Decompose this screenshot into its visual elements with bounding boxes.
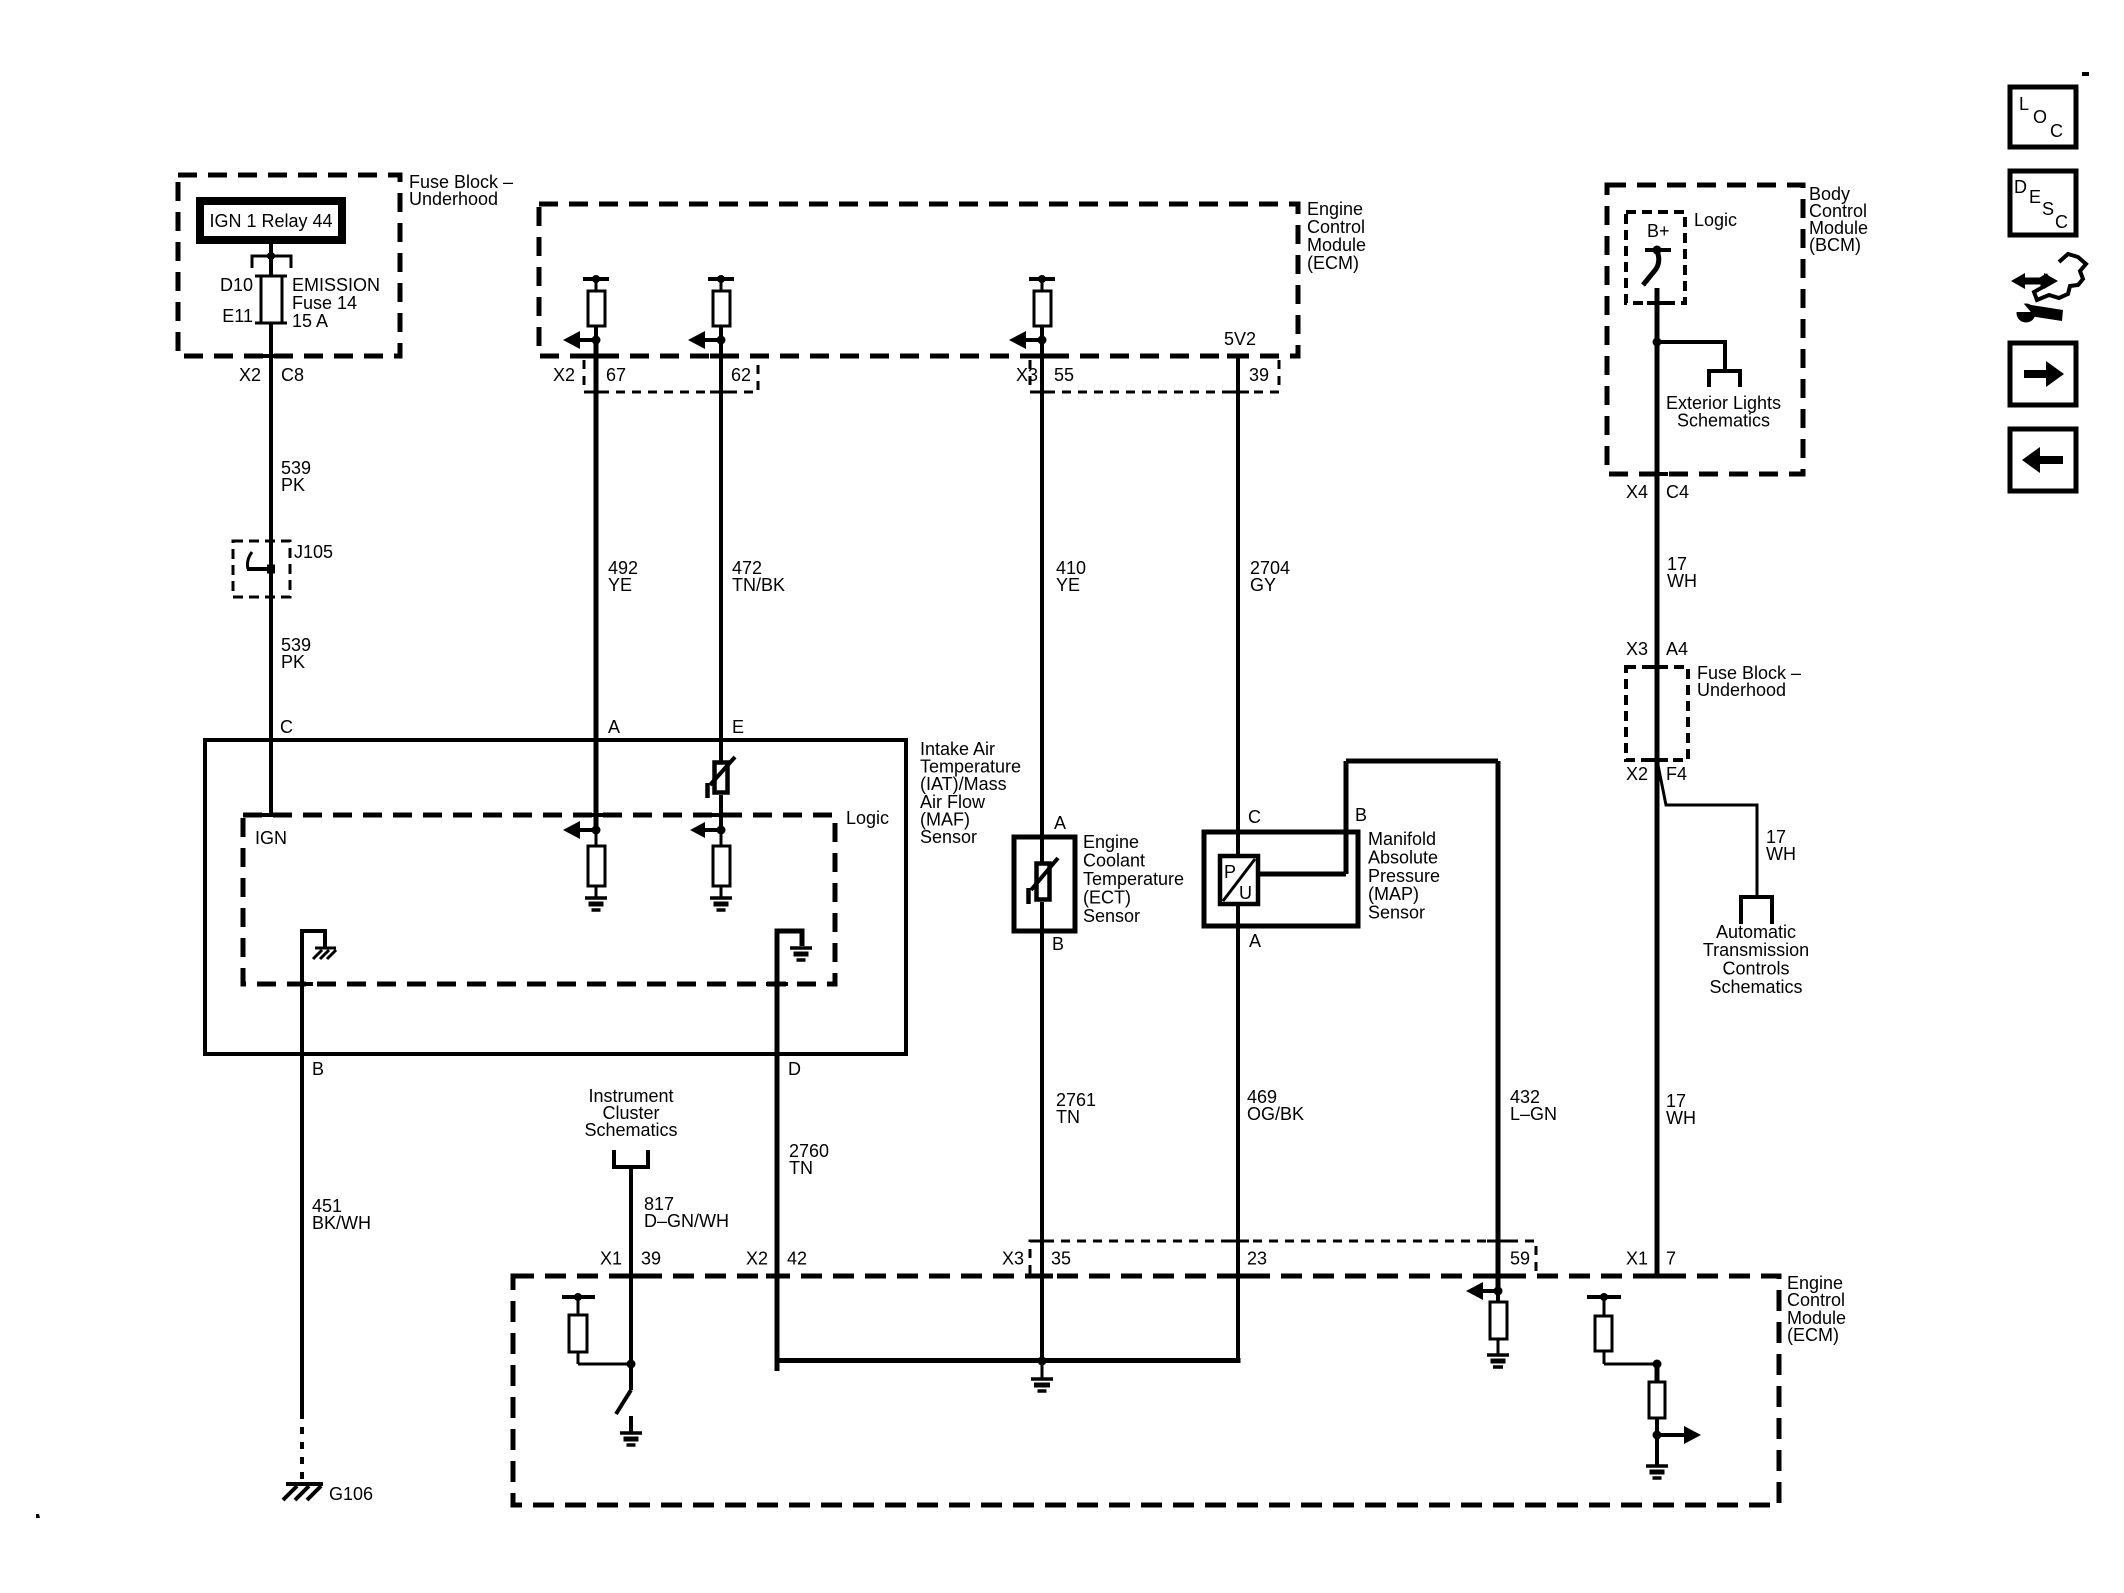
svg-text:IGN 1 Relay 44: IGN 1 Relay 44 — [209, 211, 332, 231]
svg-text:Sensor: Sensor — [1368, 903, 1425, 923]
tick marks at ECM edge crossings — [585, 354, 1249, 359]
svg-text:PK: PK — [281, 652, 305, 672]
wire 410 YE pin 55 to ECT A — [1040, 340, 1044, 862]
engine control module (bottom) dashed enclosure — [513, 1276, 1779, 1505]
wire 2704 GY pin 39 to MAP C — [1236, 357, 1240, 856]
connector box X2 (pins 67 62) fine dashed — [584, 356, 758, 392]
svg-text:59: 59 — [1510, 1249, 1530, 1269]
wire label 451 BK/WH — [312, 1196, 371, 1233]
icon wrench — [2008, 296, 2063, 323]
svg-text:D–GN/WH: D–GN/WH — [644, 1211, 729, 1231]
ground below switch — [620, 1416, 642, 1445]
wire 472 TN/BK pin 62 to MAF E — [719, 340, 723, 763]
svg-text:Temperature: Temperature — [1083, 869, 1184, 889]
off-page bracket to automatic transmission — [1741, 897, 1772, 924]
svg-text:D: D — [2014, 177, 2027, 197]
connector pins X2 / C8 — [239, 365, 304, 385]
pull-up resistor at E inside logic — [713, 830, 730, 898]
ground at E resistor — [710, 898, 732, 910]
switch blade from B+ — [1643, 251, 1659, 285]
ground at pin 59 resistor — [1487, 1355, 1509, 1367]
svg-text:Manifold: Manifold — [1368, 829, 1436, 849]
wire MAP B riser — [1344, 761, 1349, 874]
svg-text:E: E — [732, 717, 744, 737]
svg-text:Schematics: Schematics — [1677, 411, 1770, 431]
off-page bracket to exterior lights — [1709, 371, 1740, 387]
svg-text:TN/BK: TN/BK — [732, 575, 785, 595]
relay K: IGN 1 Relay 44 — [196, 197, 346, 244]
svg-text:IGN: IGN — [255, 828, 287, 848]
svg-text:A: A — [1054, 813, 1066, 833]
svg-text:C8: C8 — [281, 365, 304, 385]
ticks at right fuse box crossings — [1646, 667, 1668, 760]
svg-text:Schematics: Schematics — [1709, 977, 1802, 997]
wire 492 YE pin 67 to MAF A — [594, 340, 599, 830]
MAP sensor enclosure — [1204, 832, 1358, 926]
body control module dashed enclosure — [1607, 185, 1803, 474]
svg-text:7: 7 — [1666, 1249, 1676, 1269]
junction dot at relay output — [267, 252, 275, 260]
svg-text:Control: Control — [1787, 1290, 1845, 1310]
svg-text:WH: WH — [1666, 1108, 1696, 1128]
svg-text:67: 67 — [606, 365, 626, 385]
svg-text:(ECM): (ECM) — [1307, 253, 1359, 273]
pull-up resistor at pin 7 — [1587, 1293, 1657, 1364]
svg-text:X2: X2 — [746, 1249, 768, 1269]
chassis ground (IGN return) — [313, 948, 336, 959]
wire label 17 WH (lower) — [1666, 1091, 1696, 1128]
svg-text:Coolant: Coolant — [1083, 851, 1145, 871]
svg-text:O: O — [2033, 107, 2047, 127]
wire 817 D-GN/WH down to pin X1 39 — [629, 1167, 633, 1364]
svg-text:Automatic: Automatic — [1716, 922, 1796, 942]
stray mark bottom left — [36, 1514, 40, 1518]
ground at A resistor — [585, 898, 607, 910]
ECM (bottom) label — [1787, 1273, 1846, 1345]
svg-text:C: C — [1248, 807, 1261, 827]
logic block dashed box inside MAF — [243, 815, 835, 984]
svg-text:D: D — [788, 1059, 801, 1079]
wire 2761 TN ECT B to ECM X3 35 — [1040, 902, 1044, 1361]
automatic transmission controls schematics label — [1703, 922, 1809, 997]
exterior lights schematics label — [1666, 393, 1781, 431]
svg-text:Underhood: Underhood — [1697, 680, 1786, 700]
wire 539 PK from fuse to IAT sensor pin C — [269, 323, 273, 740]
IAT/MAF sensor label — [920, 739, 1021, 847]
svg-text:(MAP): (MAP) — [1368, 884, 1419, 904]
svg-text:C: C — [2055, 212, 2068, 232]
svg-text:62: 62 — [731, 365, 751, 385]
ECT sensor enclosure — [1014, 837, 1075, 931]
svg-text:TN: TN — [1056, 1107, 1080, 1127]
pin labels X4 C4 — [1626, 482, 1689, 502]
svg-text:GY: GY — [1250, 575, 1276, 595]
svg-text:WH: WH — [1766, 844, 1796, 864]
sense resistor at pin 7 — [1649, 1364, 1665, 1465]
off-page bracket from instrument cluster — [614, 1150, 648, 1167]
tick marks at logic box crossings — [260, 815, 788, 984]
wire label 492 YE — [608, 558, 638, 595]
svg-text:Logic: Logic — [846, 808, 889, 828]
wire label 469 OG/BK — [1247, 1087, 1304, 1124]
pin labels X3 55 39 — [1016, 365, 1269, 385]
tick marks at connector box bottom crossings — [585, 391, 1249, 394]
junction dot at B+ — [1653, 246, 1662, 255]
svg-text:X1: X1 — [1626, 1249, 1648, 1269]
ECT sensor label — [1083, 832, 1184, 926]
svg-text:Module: Module — [1307, 235, 1366, 255]
svg-text:OG/BK: OG/BK — [1247, 1104, 1304, 1124]
svg-text:X3: X3 — [1002, 1249, 1024, 1269]
tick at fuse block edge crossing — [260, 354, 282, 358]
svg-text:X2: X2 — [239, 365, 261, 385]
pin labels X2 42 — [746, 1249, 807, 1269]
svg-text:(ECM): (ECM) — [1787, 1325, 1839, 1345]
svg-text:F4: F4 — [1666, 764, 1687, 784]
svg-text:EMISSION: EMISSION — [292, 275, 380, 295]
svg-text:B: B — [1052, 934, 1064, 954]
svg-text:L: L — [2019, 94, 2029, 114]
wire label 472 TN/BK — [732, 558, 785, 595]
svg-text:23: 23 — [1247, 1249, 1267, 1269]
svg-text:L–GN: L–GN — [1510, 1104, 1557, 1124]
wire 432 L-GN down to ECM pin 59 — [1496, 761, 1501, 1289]
svg-text:Logic: Logic — [1694, 210, 1737, 230]
wire 451 BK/WH from pin B — [300, 1054, 304, 1412]
svg-text:Sensor: Sensor — [920, 827, 977, 847]
thermistor RT inside ECT — [1029, 858, 1059, 904]
connector box X3 (pins 35 23 59) fine dashed — [1030, 1241, 1536, 1274]
icon squiggle route with double arrow — [2011, 254, 2086, 300]
logic junction and arrow at E — [690, 822, 726, 838]
splice J105 symbol — [247, 552, 275, 574]
svg-text:Controls: Controls — [1722, 959, 1789, 979]
earth ground (signal return D) — [790, 948, 812, 960]
pin labels X3 A4 — [1626, 639, 1688, 659]
logic junction and arrow at A — [563, 821, 601, 839]
wire pin D up to earth ground — [777, 931, 802, 1054]
ground G106 chassis symbol — [283, 1484, 323, 1500]
icon forward arrow box — [2010, 343, 2076, 405]
ground bus wire from pin 42 — [775, 1276, 780, 1361]
splice J105 dashed box — [233, 541, 290, 597]
wire pin C into logic — [269, 740, 273, 817]
tick at fine box crossing pin 35 wire — [1032, 1240, 1054, 1243]
svg-text:Absolute: Absolute — [1368, 847, 1438, 867]
svg-text:Underhood: Underhood — [409, 189, 498, 209]
pull-up resistor at A inside logic — [588, 830, 605, 898]
svg-text:35: 35 — [1051, 1249, 1071, 1269]
branch wire to automatic transmission controls — [1658, 765, 1757, 897]
signal arrow at pin 62 — [688, 331, 726, 349]
svg-text:WH: WH — [1667, 571, 1697, 591]
wire 17 WH main vertical — [1655, 288, 1660, 1276]
svg-text:B+: B+ — [1647, 221, 1670, 241]
BCM logic dashed box — [1626, 212, 1685, 303]
icon back arrow box — [2010, 429, 2076, 491]
svg-text:YE: YE — [1056, 575, 1080, 595]
fuse block underhood (right) dashed box — [1626, 667, 1688, 760]
driver resistor R55 inside ECM — [1029, 275, 1055, 340]
thermistor RT on pin E wire — [708, 757, 736, 798]
svg-text:C4: C4 — [1666, 482, 1689, 502]
junction dot at pin 35 ground — [1038, 1357, 1047, 1366]
fuse block underhood (right) label — [1697, 663, 1801, 700]
junction dot at pin 7 net — [1653, 1360, 1662, 1369]
ground bus horizontal run — [775, 1358, 1241, 1363]
svg-text:TN: TN — [789, 1158, 813, 1178]
svg-text:B: B — [1355, 805, 1367, 825]
icon DESC box — [2010, 171, 2076, 235]
wire label 410 YE — [1056, 558, 1086, 595]
svg-text:(ECT): (ECT) — [1083, 888, 1131, 908]
MAP sensor label — [1368, 829, 1440, 923]
signal arrow at pin 55 — [1009, 331, 1047, 349]
fuse F: EMISSION Fuse 14 15 A — [255, 276, 287, 323]
switch blade inside ECM — [616, 1364, 631, 1414]
tick at logic box bottom crossing — [1647, 301, 1667, 305]
svg-text:X4: X4 — [1626, 482, 1648, 502]
svg-text:BK/WH: BK/WH — [312, 1213, 371, 1233]
svg-text:Fuse 14: Fuse 14 — [292, 293, 357, 313]
svg-text:P: P — [1224, 862, 1236, 882]
signal arrow at pin 59 — [1466, 1282, 1503, 1300]
svg-text:Engine: Engine — [1083, 832, 1139, 852]
wire label 2760 TN — [789, 1141, 829, 1178]
svg-text:5V2: 5V2 — [1224, 329, 1256, 349]
B+ feed bar — [1645, 248, 1671, 252]
junction dot to exterior lights branch — [1653, 338, 1662, 347]
svg-text:A: A — [1249, 931, 1261, 951]
fuse block underhood label — [409, 172, 513, 209]
ground at pin 7 — [1646, 1466, 1668, 1478]
icon LOC box — [2010, 87, 2076, 147]
wire pin B up to chassis ground hook — [302, 931, 325, 1054]
wire label 432 L-GN — [1510, 1087, 1557, 1124]
wire E thermistor to logic junction — [719, 795, 723, 830]
wire label 2704 GY — [1250, 558, 1290, 595]
pull-up resistor at pin 39 — [562, 1293, 631, 1364]
fuse clip bracket — [252, 256, 291, 268]
svg-text:X1: X1 — [600, 1249, 622, 1269]
svg-text:Control: Control — [1307, 217, 1365, 237]
pressure transducer P/U symbol — [1220, 856, 1258, 904]
driver resistor R62 inside ECM — [708, 275, 734, 340]
IAT/MAF sensor solid enclosure — [205, 740, 906, 1054]
wire label 539 PK (upper) — [281, 458, 311, 495]
svg-text:X3: X3 — [1626, 639, 1648, 659]
ticks at fine box crossing pins 23 and 59 wires — [1227, 1240, 1249, 1243]
svg-text:X3: X3 — [1016, 365, 1038, 385]
branch wire to exterior lights — [1657, 342, 1725, 371]
svg-text:G106: G106 — [329, 1484, 373, 1504]
svg-text:39: 39 — [1249, 365, 1269, 385]
junction dot and arrow to right at pin 7 — [1653, 1426, 1702, 1444]
instrument cluster schematics label — [584, 1086, 677, 1140]
wire 432 L-GN top run — [1346, 759, 1498, 764]
wire label 539 PK (lower) — [281, 635, 311, 672]
engine control module (top) dashed enclosure — [539, 204, 1298, 356]
svg-text:Transmission: Transmission — [1703, 940, 1809, 960]
svg-text:C: C — [2050, 121, 2063, 141]
svg-text:Engine: Engine — [1307, 199, 1363, 219]
tick at BCM bottom edge crossing — [1646, 472, 1668, 476]
fuse terminal labels D10 E11 — [220, 275, 253, 326]
wire label 2761 TN — [1056, 1090, 1096, 1127]
svg-text:PK: PK — [281, 475, 305, 495]
ground at sensor return bus — [1031, 1361, 1053, 1391]
pin labels X1 39 — [600, 1249, 661, 1269]
ECM (top) label — [1307, 199, 1366, 273]
wire label 17 WH (upper) — [1667, 554, 1697, 591]
svg-text:39: 39 — [641, 1249, 661, 1269]
svg-text:B: B — [312, 1059, 324, 1079]
svg-text:(BCM): (BCM) — [1809, 235, 1861, 255]
BCM label — [1809, 184, 1868, 255]
stray mark top right — [2082, 72, 2089, 76]
wire label 817 D-GN/WH — [644, 1194, 729, 1231]
pin labels X3 35 — [1002, 1249, 1071, 1269]
svg-text:J105: J105 — [294, 542, 333, 562]
pin labels X1 7 — [1626, 1249, 1676, 1269]
wire relay to fuse clip — [269, 244, 273, 276]
svg-text:X2: X2 — [553, 365, 575, 385]
svg-text:Schematics: Schematics — [584, 1120, 677, 1140]
svg-text:E11: E11 — [222, 306, 253, 326]
transducer output line to pin B — [1258, 872, 1346, 877]
fuse block underhood (top-left) dashed enclosure — [178, 175, 400, 356]
svg-text:C: C — [280, 717, 293, 737]
junction dot at pin 39 net — [627, 1360, 636, 1369]
tick marks at bottom ECM edge crossings — [620, 1274, 1668, 1279]
wire 469 OG/BK MAP A to ECM pin 23 — [1236, 904, 1240, 1361]
svg-text:D10: D10 — [220, 275, 253, 295]
svg-text:42: 42 — [787, 1249, 807, 1269]
dashed wire to G106 — [300, 1412, 304, 1480]
svg-text:55: 55 — [1054, 365, 1074, 385]
pin labels X2 F4 — [1626, 764, 1687, 784]
svg-text:A4: A4 — [1666, 639, 1688, 659]
signal arrow at pin 67 — [563, 331, 601, 349]
svg-text:E: E — [2029, 187, 2041, 207]
wire 2760 TN from pin D down — [775, 1054, 780, 1371]
driver resistor R67 inside ECM — [583, 275, 609, 340]
svg-text:U: U — [1239, 883, 1252, 903]
svg-text:Pressure: Pressure — [1368, 866, 1440, 886]
wire label 17 WH (branch) — [1766, 827, 1796, 864]
svg-text:15 A: 15 A — [292, 311, 328, 331]
svg-text:YE: YE — [608, 575, 632, 595]
svg-text:S: S — [2042, 199, 2054, 219]
svg-text:A: A — [608, 717, 620, 737]
fuse value label — [292, 275, 380, 331]
svg-text:Sensor: Sensor — [1083, 906, 1140, 926]
pin labels X2 67 62 — [553, 365, 751, 385]
connector box X3 (pins 55 39) fine dashed — [1030, 356, 1279, 392]
svg-text:X2: X2 — [1626, 764, 1648, 784]
load resistor at pin 59 — [1490, 1291, 1507, 1355]
